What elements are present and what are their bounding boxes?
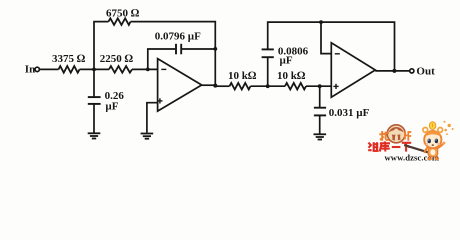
svg-text:3375 Ω: 3375 Ω bbox=[52, 53, 86, 65]
svg-text:6750 Ω: 6750 Ω bbox=[106, 8, 140, 20]
svg-text:0.0796 µF: 0.0796 µF bbox=[155, 31, 201, 43]
svg-text:10 kΩ: 10 kΩ bbox=[228, 70, 257, 82]
svg-text:2250 Ω: 2250 Ω bbox=[100, 53, 134, 65]
svg-text:µF: µF bbox=[280, 54, 293, 66]
svg-text:0.031 µF: 0.031 µF bbox=[329, 107, 370, 119]
svg-text:Out: Out bbox=[416, 65, 435, 77]
svg-text:In: In bbox=[25, 64, 35, 76]
svg-text:10 kΩ: 10 kΩ bbox=[277, 70, 306, 82]
svg-text:µF: µF bbox=[105, 101, 118, 113]
